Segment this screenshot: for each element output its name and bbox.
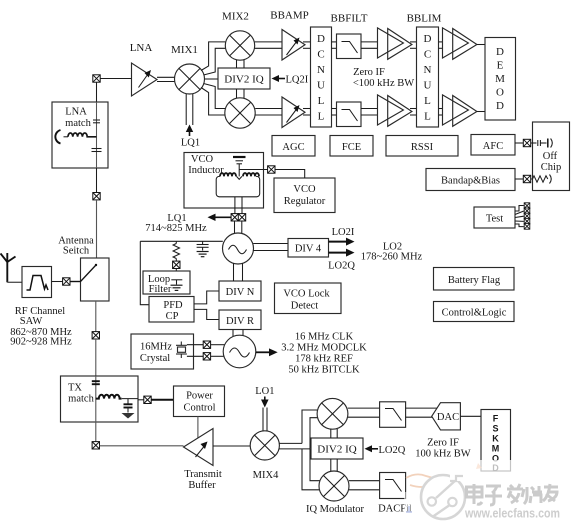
block VCO Lock Detect — [275, 283, 342, 314]
arrow LO2I — [329, 238, 355, 246]
wire VCO inductor to pad — [239, 169, 267, 171]
arrow LO1 into MIX1 — [186, 125, 193, 137]
svg-text:LO1: LO1 — [255, 386, 274, 397]
wire MIX2 to BBAMP (diff pair) — [255, 42, 282, 48]
RX top chain — [130, 10, 516, 149]
block RSSI — [386, 136, 458, 157]
antenna symbol — [1, 253, 16, 282]
supply decap in VCO inductor — [233, 157, 246, 176]
wire BBFILT I to LIMAMP I — [361, 42, 378, 48]
svg-text:Inductor: Inductor — [188, 165, 224, 176]
pad LNA input — [93, 75, 100, 82]
pad TX out — [92, 332, 99, 339]
pad xtal 1 — [203, 341, 210, 348]
amplifier limiter I stage1 — [378, 28, 412, 59]
wire Bandap to pad — [515, 178, 524, 180]
svg-text:Chip: Chip — [541, 162, 561, 173]
wire SAW to pad3 — [52, 281, 63, 283]
pad LQ1 right — [238, 214, 245, 221]
svg-text:DIV2 IQ: DIV2 IQ — [224, 74, 263, 86]
svg-text:Zero IF: Zero IF — [353, 67, 385, 78]
amplifier LNA — [132, 63, 158, 96]
block Bandap&Bias — [426, 169, 515, 191]
block VCO Inductor — [184, 153, 264, 209]
wire TX match bottom to pad6 — [95, 422, 97, 442]
wire VCO to DIV4 (diff pair) — [253, 244, 288, 251]
svg-text:178~260 MHz: 178~260 MHz — [361, 252, 423, 263]
wire through TX match — [95, 376, 97, 422]
watermark logo circle — [421, 472, 465, 519]
wire limiter I to DCNULL2 — [410, 42, 417, 48]
svg-text:LNA: LNA — [130, 42, 153, 54]
vco pll section — [131, 153, 423, 376]
svg-text:AGC: AGC — [282, 142, 304, 153]
wire through LNA match — [96, 102, 98, 168]
svg-text:Off: Off — [543, 151, 558, 162]
svg-text:DIV 4: DIV 4 — [295, 244, 322, 255]
svg-text:VCO Lock: VCO Lock — [283, 289, 330, 300]
mixer MIX4 — [250, 431, 279, 460]
svg-text:U: U — [317, 80, 325, 92]
wire filter I to DAC (diff pair) — [406, 408, 437, 417]
svg-text:<100 kHz BW: <100 kHz BW — [353, 78, 414, 89]
amplifier transmit buffer — [184, 429, 214, 466]
svg-text:902~928 MHz: 902~928 MHz — [10, 337, 72, 348]
wire pad3 to switch — [70, 281, 81, 283]
amplifier BBAMP I — [282, 30, 305, 61]
varactor loop — [216, 176, 260, 196]
amplifier BBAMP Q — [282, 97, 305, 128]
svg-text:MIX2: MIX2 — [222, 11, 249, 23]
arrow LO2Q — [329, 249, 355, 257]
wire DAC to FSKMOD — [460, 415, 481, 417]
svg-text:50 kHz BITCLK: 50 kHz BITCLK — [288, 365, 360, 376]
svg-text:IQ Modulator: IQ Modulator — [306, 504, 365, 515]
wire DCNULL2 to limiter Q2 — [439, 109, 444, 116]
block Off Chip — [533, 122, 570, 191]
wire IQ inner rail upper — [310, 418, 318, 449]
filter BBFILT Q — [337, 102, 362, 127]
block DIV R — [219, 310, 261, 330]
svg-text:C: C — [424, 49, 431, 61]
wire inductor to box edge — [122, 398, 138, 400]
svg-text:16MHz: 16MHz — [140, 342, 172, 353]
svg-text:CP: CP — [166, 311, 179, 322]
mixer MIX3 (lower RX) — [225, 98, 255, 128]
block Loop Filter — [143, 271, 190, 295]
pad antenna switch in — [63, 278, 70, 285]
wire MIX4 to IQ rails (diff pair) — [279, 443, 310, 449]
watermark CJK char 2 — [485, 486, 502, 505]
block Test — [474, 207, 515, 228]
wire lower mixer to DAC filter Q (diff pair) — [349, 481, 380, 490]
svg-text:SAW: SAW — [20, 316, 43, 327]
wire MIX1 up to MIX2 (diff pair) — [201, 42, 225, 75]
svg-text:S: S — [492, 424, 498, 434]
wire TX match to pad5 — [138, 399, 144, 401]
svg-text:Transmit: Transmit — [184, 469, 222, 480]
svg-text:www.elecfans.com: www.elecfans.com — [464, 507, 560, 521]
block AGC — [272, 136, 315, 157]
svg-text:LNA: LNA — [65, 107, 87, 118]
wire DCNULL2 to limiter I2 — [439, 42, 444, 48]
svg-text:LQ2I: LQ2I — [286, 75, 309, 86]
svg-text:U: U — [424, 80, 432, 92]
capacitor off-chip AFC — [531, 139, 553, 148]
oscillator reference — [223, 335, 256, 368]
svg-text:match: match — [65, 118, 91, 129]
pad AFC — [523, 139, 530, 146]
wire LO1 to MIX4 (diff pair) — [263, 408, 267, 432]
svg-text:L: L — [318, 95, 325, 107]
arrow LO1 down — [261, 397, 269, 408]
wire MIX1 to DIV2 IQ — [205, 78, 219, 80]
wire pad to VCO Regulator — [275, 170, 305, 179]
svg-text:DIV R: DIV R — [226, 316, 254, 327]
wire MIX1 LO input (diff pair) — [186, 94, 193, 126]
svg-text:O: O — [496, 87, 504, 99]
svg-text:16 MHz CLK: 16 MHz CLK — [295, 332, 354, 343]
inductor coils L2 — [243, 173, 259, 176]
tx bottom section — [213, 386, 511, 515]
svg-text:VCO: VCO — [191, 154, 214, 165]
svg-text:N: N — [317, 64, 325, 76]
svg-text:3.2 MHz MODCLK: 3.2 MHz MODCLK — [281, 343, 367, 354]
inductor coils L1 — [220, 173, 236, 176]
wire pad down to LNA match — [96, 82, 98, 102]
block DEMOD — [485, 38, 516, 121]
wire VCO tank rail — [140, 240, 223, 242]
svg-text:D: D — [496, 46, 504, 58]
mid boxes — [272, 122, 570, 322]
wires Test to pads — [515, 206, 524, 227]
divider DIV2 IQ (TX) — [311, 438, 363, 459]
wire crystal to pad lower — [187, 355, 203, 357]
mixer IQ upper — [317, 398, 348, 429]
mixer IQ lower — [319, 471, 349, 501]
wire limiter I2 to DEMOD — [477, 44, 485, 46]
wire MIX3 to BBAMP Q (diff pair) — [255, 109, 282, 116]
svg-text:C: C — [317, 49, 324, 61]
block 16MHz Crystal — [131, 334, 194, 369]
arrow clock out — [256, 348, 278, 356]
wire DIV2IQ to lower mixer (diff pair) — [331, 459, 337, 471]
left antenna column — [1, 75, 225, 491]
svg-text:LO2Q: LO2Q — [379, 445, 406, 456]
svg-text:MIX4: MIX4 — [253, 470, 279, 481]
svg-text:match: match — [68, 394, 94, 405]
svg-text:RSSI: RSSI — [411, 142, 434, 153]
svg-text:DIV2 IQ: DIV2 IQ — [317, 444, 356, 456]
inductor TX match — [96, 395, 122, 399]
block Power Control — [174, 386, 225, 417]
wire IQ outer rail — [302, 410, 317, 443]
amplifier limiter I stage2 — [443, 28, 477, 59]
ground tank cap — [197, 252, 209, 257]
wire DCNULL1 to BBFILT I — [332, 42, 337, 48]
filter DAC I — [380, 402, 406, 428]
svg-text:Control: Control — [183, 403, 215, 414]
wire PFD to DIV N — [194, 291, 219, 304]
pad test 2 — [524, 208, 530, 214]
filter DAC Q — [380, 473, 406, 499]
inductor LNA match — [68, 133, 97, 137]
capacitor LNA match bottom — [92, 149, 102, 152]
svg-text:Seitch: Seitch — [63, 246, 90, 257]
arrow LQ2I into DIV2IQ — [272, 75, 286, 82]
svg-text:BBAMP: BBAMP — [270, 10, 309, 22]
svg-text:Detect: Detect — [291, 301, 318, 312]
wire antenna to SAW — [7, 281, 28, 283]
svg-text:L: L — [424, 95, 431, 107]
amplifier limiter Q stage1 — [378, 95, 412, 126]
svg-text:Regulator: Regulator — [284, 196, 326, 207]
microphone cap symbol — [55, 130, 68, 144]
svg-text:K: K — [492, 434, 499, 444]
pad test 4 — [524, 218, 530, 224]
wire pad2 to switch — [96, 200, 98, 258]
block PFD CP — [149, 297, 194, 323]
mixer MIX2 — [225, 31, 254, 60]
wire buffer to MIX4 — [213, 445, 250, 447]
svg-text:Crystal: Crystal — [140, 353, 170, 364]
filter BBFILT I — [337, 34, 362, 59]
wire BBAMP Q to DCNULL1 — [303, 109, 311, 116]
divider DIV2 IQ (RX) — [218, 68, 270, 89]
crystal symbol — [176, 342, 187, 359]
resistor loop — [173, 241, 179, 261]
wire upper mixer to DIV2IQ (diff pair) — [331, 429, 337, 438]
converter DAC — [432, 403, 461, 430]
artifact blue mark — [406, 506, 412, 512]
oscillator VCO — [223, 233, 254, 264]
watermark CJK char 4 — [522, 486, 542, 504]
wire crystal to pad upper — [187, 344, 203, 346]
wire MIX2 to DIV2IQ (diff pair) — [237, 60, 245, 68]
watermark CJK char 3 — [507, 484, 523, 503]
artifact orange scribble — [406, 463, 482, 487]
wire DCNULL1 to BBFILT Q — [332, 109, 337, 116]
pad VCO supply — [268, 166, 275, 173]
pad test 3 — [524, 213, 530, 219]
watermark CJK char 1 — [467, 484, 483, 504]
block DCNULL 1 — [311, 27, 332, 127]
block RF Channel SAW — [22, 267, 52, 298]
wire LNA to MIX1 (diff pair) — [157, 77, 175, 81]
capacitor TX match top — [92, 381, 100, 384]
svg-text:Bandap&Bias: Bandap&Bias — [441, 176, 500, 187]
svg-text:BBFILT: BBFILT — [331, 13, 368, 25]
block FSKMOD — [481, 410, 511, 474]
pad xtal 2 — [203, 353, 210, 360]
svg-text:M: M — [495, 73, 505, 85]
capacitor TX match shunt — [124, 399, 133, 413]
pad Bandap — [523, 175, 530, 182]
wire VCO to DIV N (diff pair) — [234, 263, 243, 281]
svg-text:Filter: Filter — [149, 284, 172, 295]
capacitor LNA match top — [93, 120, 100, 123]
wire pads to VCO (diff pair) — [235, 221, 242, 235]
svg-text:F: F — [493, 414, 499, 424]
block DIV 4 — [288, 239, 329, 258]
svg-text:Test: Test — [486, 214, 503, 225]
capacitor tank — [197, 241, 209, 250]
watermark white halo — [466, 460, 573, 529]
svg-text:LO2Q: LO2Q — [328, 261, 355, 272]
block AFC — [471, 135, 515, 156]
resistor off-chip bias — [531, 175, 552, 184]
svg-text:100 kHz BW: 100 kHz BW — [415, 449, 470, 460]
block VCO Regulator — [274, 178, 335, 213]
wire LNA match to pad2 — [96, 168, 98, 192]
svg-text:L: L — [424, 111, 431, 123]
svg-text:TX: TX — [68, 383, 82, 394]
wire DIV R to ref osc (diff pair) — [233, 330, 243, 338]
wire pad to loop filter — [175, 269, 177, 273]
ground loop filter — [171, 285, 183, 290]
wire IQ inner rail lower — [310, 449, 320, 481]
block DCNULL 2 — [417, 27, 439, 127]
svg-text:D: D — [496, 100, 504, 112]
svg-text:Buffer: Buffer — [188, 480, 216, 491]
svg-text:BBLIM: BBLIM — [407, 13, 442, 25]
svg-text:Control&Logic: Control&Logic — [442, 308, 507, 319]
svg-text:Battery Flag: Battery Flag — [448, 275, 501, 286]
wire BBFILT Q to LIMAMP Q — [361, 109, 378, 116]
mixer MIX1 — [175, 64, 205, 94]
wire switch to pad4 — [95, 301, 97, 332]
ground TX match — [122, 413, 135, 419]
wire limiter Q to DCNULL2 — [410, 109, 417, 116]
svg-text:MIX1: MIX1 — [171, 44, 198, 56]
svg-text:D: D — [424, 33, 432, 45]
wire limiter Q2 to DEMOD — [477, 111, 485, 113]
block Battery Flag — [434, 268, 515, 291]
svg-text:AFC: AFC — [483, 141, 503, 152]
svg-text:E: E — [497, 60, 504, 72]
svg-text:D: D — [317, 33, 325, 45]
arrow LQ1 out — [208, 214, 232, 221]
block TX match — [61, 376, 139, 422]
wire pads to ref osc — [211, 345, 225, 357]
svg-text:178 kHz REF: 178 kHz REF — [295, 354, 353, 365]
pad loop filter — [173, 261, 180, 268]
wire pad4 to TX match — [95, 339, 97, 376]
svg-text:LO2I: LO2I — [332, 227, 355, 238]
wire feedback to PFD — [140, 241, 149, 304]
block LNA match — [52, 102, 108, 168]
svg-text:N: N — [424, 64, 432, 76]
svg-text:Zero IF: Zero IF — [427, 438, 459, 449]
svg-text:FCE: FCE — [342, 142, 361, 153]
pad antenna RX — [93, 193, 100, 200]
svg-text:M: M — [492, 444, 500, 454]
block Control&Logic — [434, 302, 515, 322]
wire DIV2IQ to MIX3 (diff pair) — [237, 89, 245, 98]
capacitor loop filter — [171, 280, 182, 285]
pad PA — [144, 396, 151, 403]
pad test 1 — [524, 203, 530, 209]
svg-text:DIV N: DIV N — [226, 287, 255, 298]
block DIV N — [219, 281, 261, 301]
wire upper mixer to DAC filter (diff pair) — [348, 408, 380, 417]
svg-text:Power: Power — [186, 391, 213, 402]
watermark and artifacts — [404, 460, 573, 529]
wire BBAMP I to DCNULL1 — [303, 42, 311, 48]
wire PFD to DIV R — [194, 309, 219, 319]
pad test 5 — [524, 224, 530, 230]
pad LQ1 left — [231, 214, 238, 221]
svg-text:DAC: DAC — [437, 412, 459, 423]
wires varactor to pads — [235, 197, 242, 214]
pad TX buffer — [92, 442, 99, 449]
wire pad to LNA — [100, 78, 131, 80]
wire pad6 to transmit buffer — [100, 445, 184, 447]
svg-text:714~825 MHz: 714~825 MHz — [145, 223, 207, 234]
wire AFC to pad — [515, 142, 524, 144]
wire power control to buffer — [197, 417, 199, 439]
svg-text:LQ1: LQ1 — [181, 138, 200, 149]
watermark CJK char 5 — [543, 484, 558, 501]
svg-text:L: L — [318, 111, 325, 123]
amplifier limiter Q stage2 — [443, 95, 477, 126]
block antenna switch — [81, 258, 110, 301]
svg-text:VCO: VCO — [293, 184, 316, 195]
wire MIX1 down to MIX3 (diff pair) — [201, 84, 225, 116]
wire pad5 to power control — [151, 399, 173, 401]
block FCE — [330, 136, 373, 157]
wire IQ outer rail lower — [302, 449, 319, 490]
svg-text:PFD: PFD — [163, 300, 183, 311]
arrow LO2Q into DIV2IQ — [365, 445, 379, 452]
